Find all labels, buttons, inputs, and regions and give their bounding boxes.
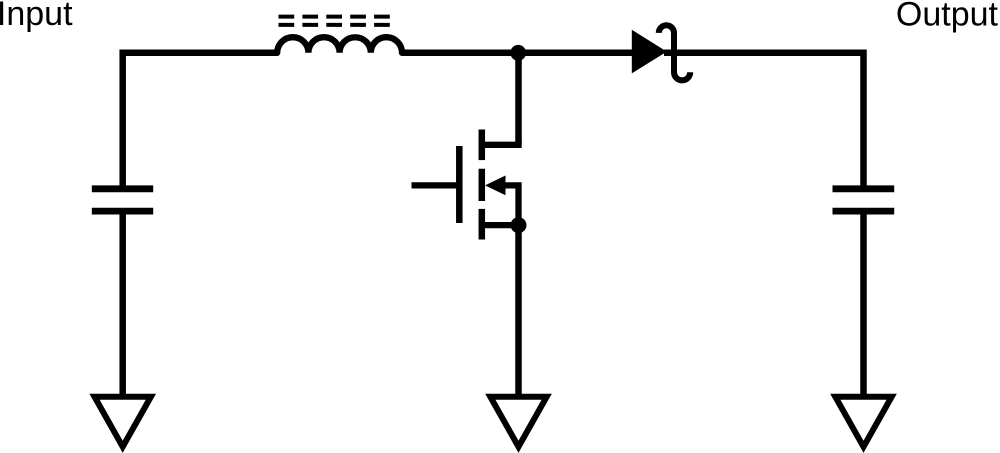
capacitor C2 (output) top plate xyxy=(833,185,895,192)
wire capacitor C1 to ground xyxy=(119,211,126,396)
capacitor C2 (output) bottom plate xyxy=(833,208,895,215)
wire input-left L (capacitor C1 top to inductor L1 left) xyxy=(123,53,278,190)
ground (output branch) xyxy=(835,397,891,447)
wire diode D1 cathode to output L (corner down to capacitor C2) xyxy=(664,53,864,190)
capacitor C1 (input) top plate xyxy=(92,185,153,192)
inductor L1 winding xyxy=(277,37,402,53)
ground (input branch) xyxy=(95,397,151,447)
transistor Q1 gate bar xyxy=(456,146,463,223)
node junction dot (inductor/diode/drain) xyxy=(510,45,526,61)
capacitor C1 (input) bottom plate xyxy=(92,208,153,215)
node junction dot (source/body) xyxy=(511,217,527,233)
wire source junction down to ground xyxy=(515,225,522,396)
wire inductor L1 right to diode D1 anode xyxy=(402,50,640,57)
transistor Q1 source connection xyxy=(482,222,519,228)
wire capacitor C2 to ground xyxy=(860,211,867,396)
node Output label xyxy=(896,0,999,33)
inductor L1 core (dashed lines) xyxy=(279,17,391,25)
ground (switch branch) xyxy=(490,397,546,447)
svg-text:Output: Output xyxy=(896,0,999,33)
transistor Q1 gate lead xyxy=(412,182,459,188)
diode D1 (Schottky) anode triangle xyxy=(632,30,667,74)
transistor Q1 body connection xyxy=(500,185,519,222)
transistor Q1 channel segments xyxy=(479,130,486,240)
svg-text:Input: Input xyxy=(0,0,73,33)
transistor Q1 body arrow xyxy=(485,176,506,196)
diode D1 Schottky cathode bar xyxy=(659,25,690,80)
node Input label xyxy=(0,0,73,33)
transistor Q1 drain connection xyxy=(482,142,519,148)
wire junction to MOSFET Q1 drain xyxy=(515,53,522,145)
